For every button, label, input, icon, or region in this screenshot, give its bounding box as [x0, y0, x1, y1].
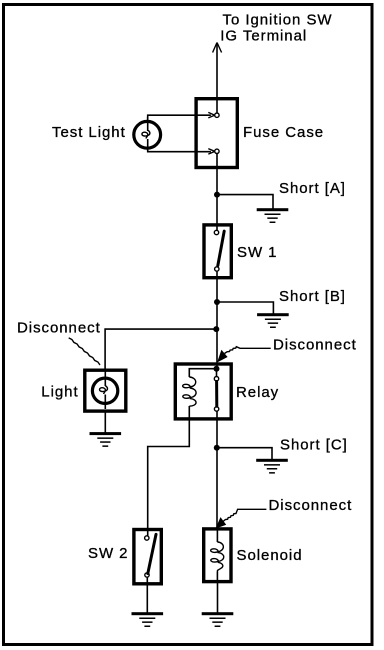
leader: Disconnect arrow at relay: [218, 347, 271, 362]
wire: branch to Short B ground: [217, 302, 273, 314]
ground G1 (Short A): [257, 208, 289, 223]
wire: branch to Short C ground: [217, 448, 272, 460]
svg-text:SW 2: SW 2: [88, 545, 128, 562]
fuse clip terminal (lower), pin: [208, 149, 219, 155]
svg-text:Light: Light: [41, 384, 78, 401]
label: Light: [41, 384, 78, 401]
fuse clip terminal (upper), pin: [208, 112, 219, 118]
node C junction: [214, 445, 220, 451]
svg-text:Test Light: Test Light: [52, 124, 126, 141]
ground G4 (light): [90, 432, 122, 447]
wire: SW1 to node B: [216, 272, 218, 302]
label: To Ignition SW / IG Terminal: [220, 11, 332, 44]
svg-text:Disconnect: Disconnect: [273, 337, 357, 354]
label: Disconnect (relay): [273, 337, 357, 354]
label: Short [A]: [279, 180, 346, 197]
wire: SW2 to ground: [146, 578, 148, 614]
leader: Disconnect arrow at solenoid: [216, 509, 266, 528]
svg-text:Short [B]: Short [B]: [279, 288, 346, 305]
fuse case F1 box: [196, 99, 237, 168]
wire: fuse case to SW1: [216, 154, 218, 231]
wire W1: ignition supply with up arrow: [213, 43, 222, 114]
lamp L1 box: [85, 370, 126, 411]
svg-text:Short [C]: Short [C]: [280, 437, 348, 454]
solenoid box: [204, 529, 231, 582]
label: Short [C]: [280, 437, 348, 454]
label: Relay: [236, 384, 279, 401]
label: SW 2: [88, 545, 128, 562]
wire: relay coil to SW2: [148, 421, 190, 537]
node B junction: [214, 299, 220, 305]
solenoid coil: [211, 530, 224, 583]
svg-text:To Ignition SW: To Ignition SW: [223, 11, 333, 28]
label: Disconnect (light branch): [17, 320, 101, 337]
label: Short [B]: [279, 288, 346, 305]
wire: test light top lead to fuse upper clip: [148, 115, 211, 121]
wire: test light bottom lead to fuse lower clip: [148, 149, 211, 152]
svg-text:IG Terminal: IG Terminal: [220, 27, 307, 44]
wire: branch to Short A ground: [217, 195, 273, 210]
svg-text:Fuse Case: Fuse Case: [243, 124, 324, 141]
wire: light to ground: [104, 412, 106, 433]
svg-text:SW 1: SW 1: [237, 244, 277, 261]
svg-text:Disconnect: Disconnect: [17, 320, 101, 337]
node: light branch junction: [213, 326, 219, 332]
leader: squiggle from Disconnect to light wire: [69, 338, 100, 365]
wire: relay to node C: [216, 412, 218, 448]
relay coil: [183, 369, 217, 421]
wire: node C to solenoid: [216, 448, 218, 530]
switch SW2 contacts and blade: [145, 534, 156, 577]
wire: light node to relay: [216, 329, 219, 376]
label: Fuse Case: [243, 124, 324, 141]
label: SW 1: [237, 244, 277, 261]
ground G6 (solenoid): [202, 612, 234, 627]
label: Disconnect (solenoid): [269, 497, 353, 514]
relay internal node, pin: [214, 366, 220, 372]
wire: solenoid to ground: [217, 583, 219, 613]
wire: node B to light branch node: [216, 302, 218, 329]
svg-text:Disconnect: Disconnect: [269, 497, 353, 514]
switch SW2 box: [134, 530, 161, 584]
svg-text:Relay: Relay: [236, 384, 279, 401]
ground G5 (SW2): [132, 612, 164, 627]
switch SW1 contacts and blade: [214, 230, 224, 271]
relay K1 box: [175, 364, 231, 419]
lamp L1 bulb: [92, 371, 117, 409]
node A junction: [214, 192, 220, 198]
label: Solenoid: [237, 547, 303, 564]
svg-text:Solenoid: Solenoid: [237, 547, 303, 564]
ground G2 (Short B): [257, 313, 289, 328]
test light TL1 bulb: [134, 117, 161, 151]
ground G3 (Short C): [256, 459, 288, 474]
relay contacts and blade: [214, 377, 219, 412]
switch SW1 box: [204, 225, 231, 278]
label: Test Light: [52, 124, 126, 141]
wire: branch to indicator light: [105, 329, 216, 370]
svg-text:Short [A]: Short [A]: [279, 180, 346, 197]
